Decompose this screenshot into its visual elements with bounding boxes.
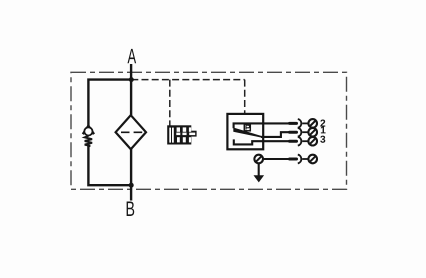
terminal 3 screw [308, 137, 317, 146]
terminal 3 wire [302, 140, 308, 142]
wire: bypass branch top [88, 80, 131, 128]
ground screw terminal [254, 155, 263, 164]
label 1 [321, 126, 326, 133]
terminal 3 socket [298, 137, 302, 146]
node: bottom junction [129, 183, 134, 188]
ground row screw [308, 155, 317, 164]
check valve seat [83, 126, 94, 134]
ground row pin [288, 158, 298, 161]
switch actuator P box [244, 124, 250, 131]
pilot dashed line horizontal [131, 79, 244, 81]
filter element dashes [121, 131, 142, 133]
terminal 2 screw [308, 119, 317, 128]
terminal 2 pin [288, 122, 298, 125]
terminal 3 pin [288, 140, 298, 143]
terminal 1 wire [302, 131, 308, 133]
terminal 2 socket [298, 119, 302, 128]
check valve ball [84, 127, 92, 135]
switch box U1 [227, 114, 263, 149]
wire: filter to B [130, 149, 132, 201]
wire: main line A to filter [130, 64, 132, 115]
wire: down to ground [258, 164, 260, 176]
terminal 2 wire [302, 122, 308, 124]
enclosure border (chain line) [71, 72, 347, 189]
switch bottom fixed contact / wire to terminal 3 [234, 139, 296, 144]
switch top fixed contact / wire to terminal 2 [234, 123, 296, 128]
label 2 [320, 119, 325, 126]
ground symbol [254, 175, 265, 182]
filter F1 [116, 115, 146, 149]
terminal 1 socket [298, 128, 302, 137]
port label B [127, 202, 135, 216]
pilot dashed line to switch box [244, 80, 246, 114]
label 3 [320, 136, 325, 143]
switch blade (movable contact) [233, 128, 262, 138]
terminal 1 screw [308, 128, 317, 137]
clogging sensor body [167, 125, 196, 144]
port label A [127, 49, 136, 63]
pilot dashed line to sensor [169, 80, 171, 126]
check valve spring [85, 136, 92, 147]
ground row wire [264, 158, 296, 160]
ground row wire 2 [302, 158, 308, 160]
wire: blade to terminal 1 [261, 132, 296, 137]
node: top junction [129, 77, 134, 82]
wire: bypass branch bottom [88, 146, 131, 186]
terminal 1 pin [288, 131, 298, 134]
ground row socket [298, 155, 302, 164]
